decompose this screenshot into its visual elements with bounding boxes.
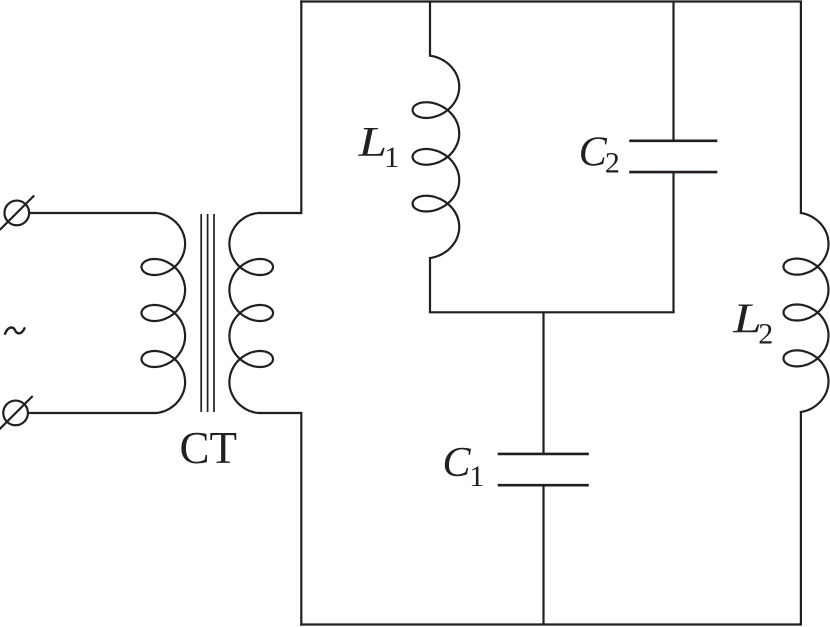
capacitor C2 bottom plate <box>631 171 717 174</box>
transformer CT: core line 1 <box>200 214 202 412</box>
svg-text:1: 1 <box>469 460 484 493</box>
terminal: bottom input circle <box>3 401 28 426</box>
wire: C1 bottom lead <box>542 485 544 624</box>
inductor L1 <box>413 56 460 258</box>
terminal: top input slash <box>1 196 34 229</box>
svg-text:2: 2 <box>758 317 773 350</box>
wire: left vertical lower segment <box>300 413 302 625</box>
capacitor C2 top plate <box>631 140 717 143</box>
terminal: bottom input slash <box>0 397 32 429</box>
wire: L1 top lead <box>429 2 431 56</box>
wire: left vertical upper segment <box>300 2 302 214</box>
wire: middle horizontal (node joining L1, C2, C1) <box>430 311 674 313</box>
wire: right vertical lower segment (L2 bottom lead) <box>800 412 802 625</box>
terminal: top input circle <box>4 201 29 226</box>
wire: top terminal to transformer primary <box>29 212 154 214</box>
wire: L1 bottom lead <box>429 258 431 312</box>
svg-text:2: 2 <box>605 147 620 180</box>
wire: bottom terminal to transformer primary <box>28 412 154 414</box>
svg-text:L: L <box>357 120 387 166</box>
wire: secondary bottom lead to node <box>260 412 301 414</box>
wire: right vertical upper segment <box>800 2 802 214</box>
transformer CT: secondary winding <box>229 213 273 413</box>
capacitor C1 bottom plate <box>499 484 588 487</box>
wire: bottom horizontal rail <box>301 623 801 625</box>
wire: top horizontal rail <box>301 0 801 2</box>
wire: C2 bottom lead <box>672 172 674 312</box>
svg-text:C: C <box>443 440 472 486</box>
wire: C1 top lead <box>542 312 544 454</box>
svg-text:1: 1 <box>384 141 399 174</box>
svg-text:CT: CT <box>180 423 238 473</box>
inductor L2 <box>784 213 829 412</box>
transformer CT: core line 3 <box>213 214 215 412</box>
svg-text:C: C <box>579 130 608 176</box>
wire: C2 top lead <box>672 2 674 141</box>
transformer CT: primary winding <box>142 213 186 413</box>
transformer CT: core line 2 <box>207 214 209 412</box>
source: AC tilde symbol <box>5 328 25 334</box>
capacitor C1 top plate <box>499 453 588 456</box>
wire: secondary top lead to node <box>260 212 301 214</box>
